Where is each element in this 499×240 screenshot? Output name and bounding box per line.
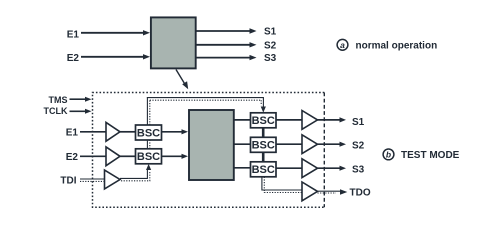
wire E1 to block xyxy=(81,30,150,35)
label S2 (normal) xyxy=(264,40,277,51)
wire core to BSC R2 xyxy=(234,143,251,145)
boundary-scan dashed boundary (top+left+bottom dotted) xyxy=(93,93,325,208)
svg-text:normal operation: normal operation xyxy=(356,40,438,51)
svg-text:S3: S3 xyxy=(264,53,277,64)
wire BSC R1 to output buffer S1 xyxy=(276,119,302,121)
serial wire BSC R2 to BSC R3 xyxy=(262,152,265,162)
svg-text:BSC: BSC xyxy=(252,164,275,176)
label S3 (test) xyxy=(352,165,365,176)
boundary right edge (dashed) xyxy=(323,93,325,208)
serial wire TDI buffer to BSC L2 (up arrow) xyxy=(120,164,151,181)
serial wire BSC L1 up to top run xyxy=(147,97,149,125)
input buffer E2 xyxy=(106,147,120,166)
arrow from block to test-mode detail xyxy=(176,70,188,90)
svg-text:E1: E1 xyxy=(67,29,80,40)
label TDO xyxy=(350,188,371,199)
output buffer S1 xyxy=(302,111,318,130)
serial wire BSC R1 to BSC R2 xyxy=(262,128,265,138)
svg-text:TDO: TDO xyxy=(350,188,371,199)
wire E1 to input buffer xyxy=(80,131,106,133)
svg-text:a: a xyxy=(340,40,345,50)
wire buffer to BSC L1 xyxy=(120,131,135,133)
BSC cell R3 (output S3) xyxy=(251,162,277,177)
wire S1 out xyxy=(318,117,347,122)
BSC cell R2 (output S2) xyxy=(251,137,277,152)
wire S3 out xyxy=(318,166,347,171)
wire TCLK xyxy=(70,109,92,114)
BSC cell L2 (input E2) xyxy=(136,149,162,164)
core logic block (normal operation) xyxy=(151,17,196,68)
wire E2 to input buffer xyxy=(80,155,106,157)
serial top run across xyxy=(147,98,264,101)
serial wire BSC R3 down to TDO buffer xyxy=(262,177,302,193)
svg-text:S2: S2 xyxy=(264,40,277,51)
TDI serial wire (solid+dotted) xyxy=(80,179,105,181)
wire buffer to BSC L2 xyxy=(120,155,135,157)
label TDI xyxy=(60,176,76,187)
label S2 (test) xyxy=(352,140,365,151)
svg-text:E1: E1 xyxy=(66,127,79,138)
svg-text:TCLK: TCLK xyxy=(44,106,68,116)
label E1 (normal) xyxy=(67,29,80,40)
wire core to BSC R3 xyxy=(234,167,251,169)
label TCLK xyxy=(44,106,68,116)
wire S2 out xyxy=(318,142,347,147)
svg-text:BSC: BSC xyxy=(137,127,160,139)
svg-text:BSC: BSC xyxy=(252,115,275,127)
wire S2 (normal) xyxy=(197,42,257,47)
svg-text:E2: E2 xyxy=(67,53,80,64)
wire BSC L1 to core xyxy=(162,129,188,134)
svg-text:BSC: BSC xyxy=(252,140,275,152)
wire BSC L2 to core xyxy=(162,154,188,159)
TDI buffer xyxy=(105,170,121,189)
label circle b xyxy=(383,149,394,160)
label S3 (normal) xyxy=(264,53,277,64)
caption: normal operation xyxy=(356,40,438,51)
wire BSC R3 to output buffer S3 xyxy=(276,167,302,169)
wire TMS xyxy=(70,97,92,102)
label E2 (test) xyxy=(66,152,79,163)
svg-text:TDI: TDI xyxy=(60,176,76,187)
svg-text:S3: S3 xyxy=(352,165,365,176)
svg-text:BSC: BSC xyxy=(137,151,160,163)
svg-text:E2: E2 xyxy=(66,152,79,163)
output buffer S3 xyxy=(302,159,318,178)
svg-text:TEST MODE: TEST MODE xyxy=(401,150,460,161)
svg-text:S1: S1 xyxy=(352,117,365,128)
BSC cell L1 (input E1) xyxy=(136,125,162,140)
TDO serial wire out xyxy=(318,189,348,194)
serial wire down into BSC R1 (down arrow) xyxy=(261,98,266,113)
svg-text:b: b xyxy=(386,150,391,160)
svg-text:TMS: TMS xyxy=(49,95,68,105)
output buffer TDO xyxy=(302,182,318,201)
wire S1 (normal) xyxy=(197,28,257,33)
label E2 (normal) xyxy=(67,53,80,64)
core logic block (test mode) xyxy=(189,110,234,180)
caption: TEST MODE xyxy=(401,150,460,161)
wire S3 (normal) xyxy=(197,55,257,60)
serial wire BSC L2 to BSC L1 xyxy=(147,140,149,149)
label TMS xyxy=(49,95,68,105)
BSC cell R1 (output S1) xyxy=(251,113,277,128)
input buffer E1 xyxy=(106,122,120,141)
svg-text:S2: S2 xyxy=(352,140,365,151)
wire core to BSC R1 xyxy=(234,119,251,121)
wire E2 to block xyxy=(81,54,150,59)
output buffer S2 xyxy=(302,135,318,154)
label E1 (test) xyxy=(66,127,79,138)
label S1 (normal) xyxy=(264,27,277,38)
label S1 (test) xyxy=(352,117,365,128)
label circle a xyxy=(337,39,348,50)
svg-text:S1: S1 xyxy=(264,27,277,38)
wire BSC R2 to output buffer S2 xyxy=(276,143,302,145)
